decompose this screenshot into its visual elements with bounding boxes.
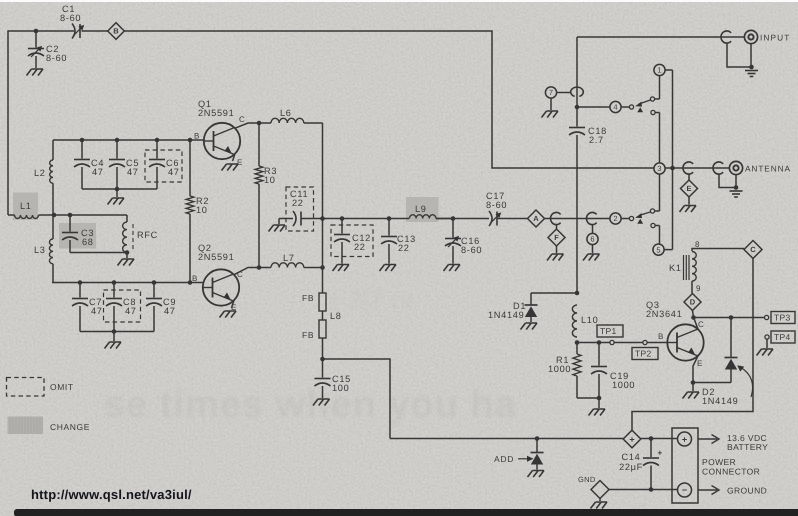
- ground below C16: [444, 265, 461, 272]
- svg-text:TP4: TP4: [774, 332, 791, 342]
- relay contact arm upper set: [629, 105, 633, 109]
- svg-text:L8: L8: [330, 311, 342, 321]
- pin 3 circle: [654, 163, 665, 174]
- svg-text:L7: L7: [283, 253, 295, 263]
- transistor Q2: [203, 269, 239, 305]
- node junction bottom bus ground: [115, 187, 120, 192]
- wire pin2 to relay contact: [621, 218, 629, 220]
- node junction Q3 emitter: [691, 380, 696, 385]
- change highlight box for C3: [59, 223, 96, 249]
- test point TP1: [597, 325, 623, 337]
- pin 5 circle: [653, 244, 664, 255]
- capacitor C16: [452, 219, 454, 238]
- inductor L3: [52, 215, 54, 239]
- ground below input jack: [745, 70, 758, 72]
- svg-text:8-60: 8-60: [46, 53, 67, 63]
- wire Q2 collector to L7: [234, 268, 271, 275]
- diode ADD: [536, 439, 538, 453]
- transistor Q3: [667, 324, 703, 360]
- ground below C2: [27, 69, 44, 76]
- ferrite bead FB upper: [319, 293, 326, 311]
- svg-text:22μF: 22μF: [619, 462, 643, 472]
- capacitor C8: [113, 283, 115, 298]
- node junction L1/L2/L3: [52, 213, 57, 218]
- test point TP4: [765, 335, 769, 339]
- node junction antenna line: [670, 166, 675, 171]
- wire Q2 emitter to ground: [232, 301, 234, 308]
- svg-text:TP2: TP2: [635, 349, 652, 359]
- node junction antenna shield: [734, 185, 739, 190]
- node junction at C2 tap: [34, 29, 39, 34]
- capacitor C6: [156, 140, 158, 159]
- capacitor C7: [79, 283, 81, 298]
- svg-text:RFC: RFC: [137, 230, 158, 240]
- connector loop on control line: [571, 87, 584, 96]
- svg-text:22: 22: [398, 243, 410, 253]
- capacitor C17: [489, 211, 492, 226]
- node junction bottom bus2 ground: [112, 329, 117, 334]
- test point TP2: [643, 340, 647, 344]
- wire lower throw1 down to pin3: [655, 112, 659, 114]
- svg-text:22: 22: [354, 242, 366, 252]
- svg-text:L9: L9: [415, 204, 427, 214]
- capacitor C13: [388, 219, 390, 236]
- wire input shield to ground: [727, 43, 752, 67]
- power connector minus terminal: [678, 483, 692, 497]
- node B diamond: [108, 23, 125, 40]
- node junction C15 tap: [320, 357, 325, 362]
- wire C7-C9 bottom bus: [80, 331, 154, 333]
- wire D diamond to Q3 collector: [693, 311, 694, 318]
- node junction C9: [152, 280, 157, 285]
- arrow pointing to D2: [741, 368, 753, 398]
- capacitor C4: [81, 140, 83, 159]
- svg-text:L3: L3: [34, 245, 46, 255]
- wire C15 node to power rail: [323, 359, 391, 439]
- wire pin7 to connector: [557, 92, 571, 94]
- wire ground rail: [609, 489, 678, 491]
- svg-text:68: 68: [82, 237, 94, 247]
- wire pin4 to C18 node: [577, 106, 610, 108]
- capacitor C2: [35, 31, 37, 48]
- connector jack at F: [551, 212, 561, 224]
- svg-text:GND: GND: [578, 475, 596, 484]
- svg-text:B: B: [113, 27, 119, 36]
- node junction C5: [115, 138, 120, 143]
- svg-text:F: F: [554, 233, 559, 242]
- svg-text:C: C: [750, 245, 756, 254]
- wire base line segment1: [577, 342, 610, 344]
- svg-text:L10: L10: [581, 315, 598, 325]
- capacitor C12: [341, 219, 343, 234]
- svg-text:POWER: POWER: [702, 457, 736, 467]
- ground below C12: [333, 265, 350, 272]
- svg-text:TP3: TP3: [774, 313, 791, 323]
- svg-text:1N4149: 1N4149: [488, 310, 524, 320]
- ground at C11: [278, 219, 280, 225]
- wire antenna shield to ground: [719, 174, 736, 187]
- svg-text:GROUND: GROUND: [727, 486, 767, 496]
- pin 4 circle: [610, 101, 621, 112]
- svg-text:INPUT: INPUT: [760, 33, 790, 43]
- svg-text:C: C: [698, 320, 704, 329]
- svg-text:2: 2: [613, 214, 617, 223]
- wire upper throw to pin3: [655, 210, 660, 212]
- ground below C19: [598, 398, 600, 408]
- svg-text:9: 9: [696, 284, 701, 293]
- wire pin5 to right vertical: [664, 249, 672, 251]
- svg-text:8: 8: [695, 240, 700, 249]
- node GND diamond: [591, 481, 609, 499]
- svg-text:A: A: [533, 214, 539, 223]
- svg-text:FB: FB: [302, 330, 314, 340]
- svg-text:47: 47: [164, 306, 176, 316]
- ground below pin7: [550, 98, 552, 110]
- wire top bus from input tank to antenna feed: [8, 31, 654, 215]
- wire C3 to RFC bottom: [70, 252, 127, 254]
- wire to C3/RFC: [54, 214, 127, 216]
- ground below GND diamond: [599, 499, 601, 502]
- capacitor C1: [72, 24, 75, 39]
- svg-text:B: B: [192, 274, 198, 283]
- inductor L10: [572, 305, 577, 337]
- node junction C18 top: [575, 105, 580, 110]
- svg-text:22: 22: [292, 198, 304, 208]
- node junction interstage: [320, 216, 325, 221]
- capacitor C3: [69, 215, 71, 232]
- ground below D1: [521, 323, 538, 330]
- svg-text:1000: 1000: [612, 380, 635, 390]
- svg-text:OMIT: OMIT: [50, 382, 74, 392]
- node junction L7 right: [320, 265, 325, 270]
- pin 6 circle: [587, 233, 598, 244]
- ground below Q3 emitter: [692, 383, 694, 392]
- coax jack ANTENNA: [729, 161, 742, 174]
- svg-text:B: B: [658, 332, 664, 341]
- node junction C7: [78, 280, 83, 285]
- wire pin3 to antenna connector: [665, 167, 730, 169]
- wire collector line to TP3: [694, 317, 765, 319]
- wire C diamond to power rail: [632, 259, 753, 431]
- inductor L1: [8, 214, 15, 216]
- connector jack at input: [721, 31, 731, 43]
- ground below C7-C9 bus: [113, 332, 115, 342]
- node junction TP1 line: [575, 340, 580, 345]
- ground below pin 6: [592, 245, 594, 253]
- resistor R2: [189, 140, 191, 196]
- svg-text:E: E: [686, 184, 691, 193]
- omit dashed box around C8: [104, 290, 141, 322]
- change highlight box for L1: [13, 193, 38, 221]
- svg-text:D: D: [690, 298, 696, 307]
- wire input line: [577, 36, 745, 38]
- svg-text:47: 47: [125, 306, 137, 316]
- ground below RFC: [126, 253, 128, 259]
- node junction C19 bottom: [597, 396, 602, 401]
- node junction C8: [112, 280, 117, 285]
- svg-text:+: +: [682, 434, 687, 444]
- svg-text:2N5591: 2N5591: [198, 252, 234, 262]
- svg-text:100: 100: [332, 383, 349, 393]
- ground output arrow: [698, 489, 717, 491]
- svg-text:1N4149: 1N4149: [702, 396, 738, 406]
- resistor R3: [258, 123, 260, 166]
- svg-text:−: −: [682, 485, 687, 495]
- svg-text:5: 5: [656, 245, 660, 254]
- svg-text:10: 10: [196, 205, 208, 215]
- svg-text:CHANGE: CHANGE: [50, 422, 90, 432]
- ground below C15: [313, 399, 330, 406]
- ground below C13: [380, 265, 397, 272]
- svg-text:+: +: [658, 449, 663, 458]
- node junction C13: [387, 216, 392, 221]
- node junction C19 top: [597, 340, 602, 345]
- wire D1 line: [531, 292, 577, 294]
- svg-text:8-60: 8-60: [461, 245, 482, 255]
- coax jack INPUT: [744, 30, 757, 43]
- pin 2 circle: [610, 213, 621, 224]
- svg-text:47: 47: [91, 306, 103, 316]
- node junction R3 top: [257, 121, 262, 126]
- ground below Q1 emitter: [222, 164, 239, 171]
- node junction R2 top: [188, 138, 193, 143]
- capacitor C11: [279, 218, 293, 220]
- svg-text:ANTENNA: ANTENNA: [745, 164, 791, 174]
- node E diamond: [681, 180, 698, 197]
- wire power rail: [390, 438, 624, 440]
- svg-text:4: 4: [613, 103, 617, 112]
- wire R1 to C19 bottom: [577, 397, 599, 399]
- diode D1: [530, 293, 532, 305]
- svg-text:L2: L2: [34, 168, 46, 178]
- svg-text:3: 3: [657, 164, 661, 173]
- svg-text:10: 10: [264, 175, 276, 185]
- ground below antenna jack: [730, 190, 743, 192]
- omit dashed box around C12: [331, 225, 373, 257]
- node C diamond: [744, 241, 762, 259]
- connector jack at antenna: [713, 162, 723, 174]
- wire upper throw1 to pin1: [655, 98, 660, 100]
- wire lower throw to pin5: [655, 225, 659, 227]
- node junction D2 top: [729, 315, 734, 320]
- legend omit dashed box: [7, 378, 45, 397]
- ground below ADD diode: [528, 471, 545, 478]
- node junction input shield: [749, 65, 754, 70]
- ground below C4-C6 bus: [116, 189, 118, 197]
- node junction R2 bottom: [188, 280, 193, 285]
- wire emitter to D2: [693, 382, 731, 384]
- node junction C4: [80, 138, 85, 143]
- ferrite bead FB lower: [319, 320, 326, 338]
- wire Q3 emitter down: [693, 356, 698, 383]
- pin 1 circle: [654, 64, 665, 75]
- inductor L6: [271, 118, 304, 123]
- capacitor C9: [153, 283, 155, 298]
- wire Q2 base bus: [52, 282, 203, 284]
- svg-text:47: 47: [168, 167, 180, 177]
- svg-text:C: C: [239, 115, 245, 124]
- node F diamond: [548, 229, 565, 246]
- svg-text:8-60: 8-60: [486, 200, 507, 210]
- transistor Q1: [204, 123, 240, 159]
- svg-text:TP1: TP1: [600, 326, 617, 336]
- capacitor C5: [116, 140, 118, 159]
- wire C4-C6 bottom bus: [82, 188, 157, 190]
- wire control vertical: [576, 37, 578, 127]
- power connector plus terminal: [678, 432, 692, 446]
- svg-text:7: 7: [549, 88, 553, 97]
- connector jack at 6: [587, 212, 597, 224]
- wire Q1 collector to L6: [235, 123, 271, 128]
- test point TP3: [765, 315, 769, 319]
- ground below Q2 emitter: [220, 311, 237, 318]
- node junction C12: [340, 216, 345, 221]
- inductor L7: [271, 263, 304, 268]
- svg-text:2N5591: 2N5591: [198, 108, 234, 118]
- wire base line segment3: [647, 342, 667, 344]
- svg-text:CONNECTOR: CONNECTOR: [702, 467, 760, 477]
- capacitor C19: [598, 343, 600, 366]
- connector jack at E: [683, 162, 693, 174]
- svg-text:E: E: [237, 158, 243, 167]
- node A diamond: [528, 210, 545, 227]
- svg-text:B: B: [194, 132, 200, 141]
- node junction ADD diode: [535, 436, 540, 441]
- ground below F: [556, 246, 558, 253]
- resistor R1: [576, 343, 578, 355]
- wire L7 node down to ferrite beads: [322, 219, 324, 294]
- change highlight box for L9: [406, 197, 439, 222]
- wire Q1 emitter to ground: [233, 155, 235, 161]
- relay coil K1: [692, 249, 744, 252]
- svg-text:6: 6: [590, 235, 594, 244]
- pin 7 circle: [545, 87, 556, 98]
- node junction C6: [155, 138, 160, 143]
- ground below TP4: [766, 339, 768, 348]
- battery output arrow: [698, 438, 717, 440]
- svg-text:47: 47: [127, 167, 139, 177]
- node junction Q2 collector / R3: [257, 265, 262, 270]
- node junction D1 line: [575, 291, 580, 296]
- legend change shaded box: [8, 417, 44, 435]
- wire pin1 to right vertical: [665, 69, 672, 71]
- url text: [31, 487, 192, 502]
- svg-text:47: 47: [92, 167, 104, 177]
- node junction RFC ground: [125, 250, 130, 255]
- node plus diamond: [623, 430, 641, 448]
- svg-text:1000: 1000: [548, 364, 571, 374]
- wire right vertical pin1-pin5: [672, 70, 674, 250]
- wire Q1 base bus: [53, 139, 204, 141]
- wire base line segment2: [614, 342, 643, 344]
- svg-text:K1: K1: [669, 263, 682, 273]
- svg-text:2.7: 2.7: [589, 135, 604, 145]
- wire Q3 collector up: [694, 319, 698, 330]
- wire L6 down to interstage: [322, 123, 324, 219]
- inductor L2: [52, 140, 54, 160]
- wire A to connector: [545, 218, 611, 220]
- svg-text:ADD: ADD: [494, 454, 514, 464]
- capacitor C15: [322, 359, 324, 378]
- node junction C3 tap: [68, 213, 73, 218]
- capacitor C18: [569, 127, 585, 129]
- inductor RFC: [126, 215, 128, 222]
- bottom scan bar: [14, 509, 798, 516]
- ground below E: [688, 197, 690, 205]
- wire L9 to C17: [436, 218, 489, 220]
- svg-text:+: +: [629, 434, 634, 444]
- omit dashed box around C6: [145, 150, 182, 182]
- capacitor C14: [650, 439, 652, 458]
- svg-text:8-60: 8-60: [60, 13, 81, 23]
- node junction C16: [451, 216, 456, 221]
- power connector box: [672, 428, 698, 503]
- node D diamond: [684, 294, 701, 311]
- svg-text:L1: L1: [20, 201, 32, 211]
- node junction C14 bottom: [649, 487, 654, 492]
- svg-text:1: 1: [657, 66, 661, 75]
- inductor L9: [410, 215, 436, 219]
- diode D2: [730, 318, 732, 358]
- svg-text:E: E: [697, 359, 703, 368]
- svg-text:L6: L6: [280, 108, 292, 118]
- node junction Q3 collector: [691, 315, 696, 320]
- omit dashed box around C11: [286, 187, 314, 231]
- node junction C14 top: [649, 436, 654, 441]
- svg-text:2N3641: 2N3641: [646, 309, 682, 319]
- svg-text:BATTERY: BATTERY: [727, 442, 768, 452]
- relay contact arm lower set: [629, 216, 633, 220]
- svg-text:FB: FB: [302, 293, 314, 303]
- svg-text:C14: C14: [622, 452, 641, 462]
- wire pin4 to arm: [621, 106, 629, 108]
- wire main line to L9: [323, 218, 410, 220]
